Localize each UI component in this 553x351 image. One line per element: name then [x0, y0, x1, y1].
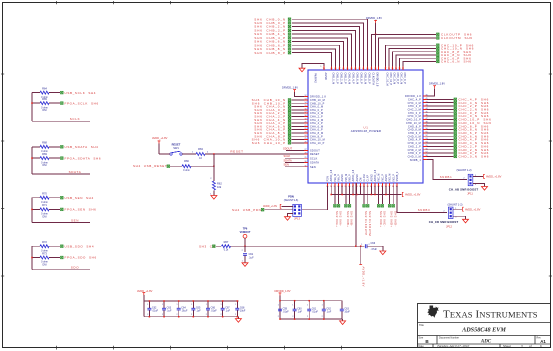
- svg-text:55: 55: [391, 68, 393, 70]
- svg-text:(SHUNT 1-2): (SHUNT 1-2): [447, 203, 462, 207]
- svg-text:SCLK: SCLK: [70, 117, 80, 121]
- svg-text:SH2 IND-: SH2 IND-: [393, 211, 397, 227]
- svg-text:.1uF: .1uF: [225, 310, 230, 313]
- svg-text:AGND: AGND: [385, 174, 388, 181]
- ground (R62): [211, 196, 217, 200]
- connector CHD_4_P: [454, 138, 489, 142]
- connector CHD_6_N: [454, 134, 489, 138]
- power AVDD_+1.8V (JP12): [453, 207, 481, 211]
- svg-text:INC_P: INC_P: [381, 174, 384, 182]
- svg-text:69: 69: [330, 68, 332, 70]
- svg-text:R65: R65: [42, 97, 47, 101]
- svg-text:52: 52: [402, 68, 404, 70]
- wire net SEN: [31, 198, 90, 223]
- wire CHC_8_N: [396, 55, 436, 70]
- svg-text:CHB_8_P: CHB_8_P: [368, 73, 371, 84]
- svg-text:DNI: DNI: [42, 164, 46, 167]
- svg-text:2: 2: [191, 314, 192, 316]
- connector CHA_6_P: [254, 128, 290, 132]
- connector USB_SDO: [61, 244, 95, 248]
- svg-text:INB_P: INB_P: [348, 174, 351, 182]
- svg-text:65: 65: [346, 68, 348, 70]
- svg-text:CHC_8_P: CHC_8_P: [396, 73, 399, 85]
- connector CHC_2_P: [454, 104, 489, 108]
- svg-text:2: 2: [292, 316, 293, 318]
- connector CHC_8_P: [437, 50, 472, 54]
- svg-text:50: 50: [426, 128, 428, 130]
- connector INC+: [377, 205, 382, 228]
- svg-text:48: 48: [426, 121, 428, 123]
- svg-text:Size: Size: [419, 336, 424, 339]
- svg-text:ADC: ADC: [480, 340, 492, 345]
- connector INC-: [381, 205, 386, 227]
- svg-text:ADS58C48 EVM: ADS58C48 EVM: [461, 327, 506, 334]
- date/sheet row: [419, 344, 543, 349]
- power DRVDD_1.8V flag (U1 left): [282, 85, 308, 96]
- capacitor C67: [220, 300, 230, 317]
- connector CHA_10_P: [252, 141, 291, 145]
- wire AVDD cap bank bus: [144, 301, 239, 317]
- connector USB_RESET: [133, 164, 170, 168]
- svg-text:R69: R69: [42, 152, 47, 156]
- svg-text:51: 51: [426, 132, 428, 134]
- svg-text:USB_SDO SH4: USB_SDO SH4: [65, 244, 95, 248]
- svg-text:SH2 INA-: SH2 INA-: [339, 211, 343, 227]
- resistor R64: [40, 86, 49, 98]
- node SDOUT: [283, 146, 308, 150]
- svg-text:SEN: SEN: [310, 166, 316, 169]
- svg-text:SDATA: SDATA: [310, 162, 319, 165]
- svg-text:0.1k: 0.1k: [224, 249, 229, 252]
- connector CM: [199, 244, 221, 248]
- resistor R69: [40, 152, 49, 167]
- svg-text:54: 54: [395, 68, 397, 70]
- connector IND-: [392, 205, 397, 227]
- node SCLK: [284, 154, 309, 158]
- svg-text:CHB_0_P: CHB_0_P: [336, 73, 339, 84]
- svg-text:JP11: JP11: [467, 191, 473, 195]
- svg-text:CHB_2_M: CHB_2_M: [340, 73, 343, 85]
- svg-text:SDATA: SDATA: [69, 170, 82, 174]
- connector USB_PDN: [232, 208, 293, 212]
- wire CHC_10_P: [386, 45, 436, 70]
- svg-text:AVDD_+1.8V: AVDD_+1.8V: [263, 205, 278, 208]
- svg-text:53: 53: [398, 68, 400, 70]
- connector FPGA_SDATA: [61, 156, 102, 160]
- svg-text:IND_M: IND_M: [389, 174, 392, 182]
- svg-text:Sheet: Sheet: [503, 344, 511, 348]
- svg-text:CHD_0_N SH6: CHD_0_N SH6: [459, 155, 490, 159]
- svg-text:SH2 INA+: SH2 INA+: [335, 211, 339, 227]
- svg-text:SH6 CHB_8_P: SH6 CHB_8_P: [254, 51, 286, 55]
- svg-text:CHC_8_M: CHC_8_M: [393, 73, 396, 85]
- svg-text:2: 2: [162, 314, 163, 316]
- svg-text:TEXAS INSTRUMENTS: TEXAS INSTRUMENTS: [443, 309, 538, 321]
- capacitor C64: [177, 300, 188, 317]
- svg-text:.1uF: .1uF: [249, 256, 254, 259]
- svg-text:SH2 CLKOUTM: SH2 CLKOUTM: [368, 211, 372, 236]
- power AVDD_+1.8V (JP13): [263, 204, 293, 208]
- svg-text:61: 61: [362, 68, 364, 70]
- power AVDD_+1.8V flag (cap bank): [137, 289, 153, 301]
- svg-text:AVDD_+1.8V: AVDD_+1.8V: [361, 267, 365, 287]
- svg-text:49: 49: [426, 125, 428, 127]
- connector CHC_8_N: [437, 53, 472, 57]
- capacitor C61 (DRVDD): [307, 300, 318, 320]
- title text ADS58C48 EVM: [419, 323, 506, 333]
- svg-text:AGND: AGND: [356, 174, 359, 181]
- svg-text:R73: R73: [42, 251, 47, 255]
- wire CLKOUTP/CLKOUTM pair: [364, 195, 368, 205]
- svg-text:.01uF: .01uF: [283, 311, 290, 314]
- connector CLKOUTP: [437, 32, 473, 36]
- wire PDN to JP13: [302, 183, 328, 210]
- svg-text:SNRB_0: SNRB_0: [396, 171, 399, 181]
- svg-text:.47uF: .47uF: [371, 248, 378, 251]
- connector CHB_0_P: [254, 21, 290, 25]
- svg-text:SH2 INB-: SH2 INB-: [350, 211, 354, 227]
- connector CHD_4_N: [454, 141, 489, 145]
- svg-text:PDN: PDN: [327, 176, 330, 181]
- svg-text:2: 2: [307, 316, 308, 318]
- svg-text:.1uF: .1uF: [167, 310, 172, 313]
- connector CHB_2_P: [254, 28, 290, 32]
- svg-text:CHB_8_M: CHB_8_M: [364, 73, 367, 85]
- svg-text:R67: R67: [224, 240, 229, 244]
- wire net SDO: [31, 246, 90, 270]
- capacitor C66: [365, 242, 382, 251]
- capacitor C61: [242, 253, 254, 263]
- svg-text:CHB_2_P: CHB_2_P: [344, 73, 347, 84]
- resistor R63: [196, 147, 209, 160]
- svg-text:56: 56: [388, 68, 390, 70]
- svg-text:44: 44: [426, 108, 428, 110]
- svg-text:58: 58: [426, 155, 428, 157]
- svg-text:43: 43: [426, 105, 428, 107]
- wire RESET net to U1: [205, 149, 308, 154]
- capacitor C65: [191, 300, 201, 317]
- svg-text:C66: C66: [371, 242, 376, 245]
- connector USB_SDATA: [61, 145, 99, 149]
- connector CHA_2_P: [254, 115, 290, 119]
- node SEN: [284, 163, 309, 167]
- resistor R67: [222, 240, 246, 252]
- svg-text:.01uF: .01uF: [181, 310, 188, 313]
- connector CHA_10_N: [252, 138, 291, 142]
- svg-text:3: 3: [521, 344, 523, 348]
- svg-text:INC_M: INC_M: [378, 174, 381, 182]
- svg-text:CHC_6_N SH6: CHC_6_N SH6: [441, 60, 472, 64]
- capacitor C63 10uF: [340, 301, 351, 319]
- svg-text:1: 1: [177, 304, 178, 306]
- resistor R62: [210, 154, 222, 196]
- svg-text:AGND: AGND: [341, 174, 344, 181]
- power AVDD_+1.8V (vertical): [359, 246, 365, 287]
- U1 right pin names: [405, 94, 427, 161]
- U1 left pin names: [305, 95, 327, 169]
- connector CHD_2_P: [454, 144, 489, 148]
- power AVDD_+1.8V (bottom bus): [402, 193, 420, 197]
- connector CHD_10_N: [454, 121, 492, 125]
- svg-text:AVDD_1.8: AVDD_1.8: [330, 169, 333, 181]
- svg-text:ADS58C48_POWER: ADS58C48_POWER: [351, 129, 382, 133]
- connector CLKOUTP: [363, 205, 368, 236]
- svg-text:SH2 CLKOUTP: SH2 CLKOUTP: [364, 211, 368, 236]
- svg-text:6: 6: [540, 344, 542, 348]
- svg-text:DRVDD_1.8V: DRVDD_1.8V: [282, 85, 298, 89]
- svg-text:DRVDD_1.8V: DRVDD_1.8V: [275, 289, 291, 293]
- svg-text:70: 70: [323, 68, 325, 70]
- svg-text:DNI: DNI: [42, 215, 46, 218]
- svg-text:SEN: SEN: [284, 163, 289, 167]
- connector CHB_6_N: [254, 40, 291, 44]
- svg-text:INB_M: INB_M: [345, 174, 348, 182]
- connector CHD_2_N: [454, 148, 489, 152]
- connector CHB_2_N: [254, 25, 291, 29]
- wire CHC_6_P: [400, 58, 436, 70]
- svg-text:42: 42: [426, 101, 428, 103]
- svg-text:SEN: SEN: [71, 218, 79, 222]
- svg-text:R70: R70: [42, 192, 47, 196]
- svg-text:SDO: SDO: [71, 266, 79, 270]
- title block: [418, 304, 551, 348]
- node SEN: [71, 218, 79, 222]
- connector CHA_4_N: [254, 118, 291, 122]
- svg-text:DRVDD_1.8V: DRVDD_1.8V: [366, 16, 382, 20]
- connector INA+: [334, 205, 339, 228]
- svg-text:CH_AB SNR BOOST: CH_AB SNR BOOST: [449, 188, 479, 192]
- connector CHB_10_P: [252, 101, 291, 105]
- svg-text:54: 54: [426, 142, 428, 144]
- connector CHA_6_N: [254, 124, 291, 128]
- svg-text:SNRB1: SNRB1: [440, 175, 453, 179]
- svg-text:VCMOUT: VCMOUT: [240, 231, 251, 234]
- svg-text:CH_CD SNR BOOST: CH_CD SNR BOOST: [429, 220, 459, 224]
- svg-text:1: 1: [278, 305, 279, 307]
- ground (JP12): [453, 216, 469, 223]
- svg-text:SNRB_1: SNRB_1: [410, 159, 422, 162]
- svg-text:.1uF: .1uF: [196, 310, 201, 313]
- connector INB+: [345, 205, 350, 228]
- svg-text:52: 52: [426, 135, 428, 137]
- svg-text:.1uF: .1uF: [326, 311, 331, 314]
- svg-text:INA_P: INA_P: [338, 174, 341, 182]
- ground (DRVDD cap bank): [340, 319, 346, 324]
- svg-text:58: 58: [374, 68, 376, 70]
- connector CHB_0_N: [254, 17, 291, 21]
- svg-text:CHB_4_P: CHB_4_P: [352, 73, 355, 84]
- svg-text:R68: R68: [42, 141, 47, 145]
- ground (U1 pin 1 AGND): [299, 64, 324, 72]
- svg-text:USB_SEN SH4: USB_SEN SH4: [65, 196, 94, 200]
- wire CM to C66: [355, 183, 364, 247]
- ground (C61): [242, 263, 248, 267]
- svg-text:SH2 INC+: SH2 INC+: [379, 211, 383, 228]
- jumper JP13 PDN: [284, 195, 302, 221]
- power AVDD_+1.8V (JP11): [473, 174, 502, 178]
- svg-text:USB_SCLK SH4: USB_SCLK SH4: [65, 91, 97, 95]
- svg-text:47: 47: [426, 118, 428, 120]
- svg-text:.1uF: .1uF: [297, 311, 302, 314]
- capacitor C68: [235, 300, 246, 317]
- connector CHC_6_N: [437, 60, 472, 64]
- connector FPGA_SEN: [61, 208, 97, 212]
- connector CHC_0_P: [454, 111, 489, 115]
- capacitor C66: [206, 300, 217, 317]
- jumper JP12: [429, 203, 463, 229]
- svg-text:CLKP: CLKP: [367, 175, 370, 182]
- U1 bottom pin names: [326, 169, 399, 188]
- svg-text:55: 55: [426, 145, 428, 147]
- svg-text:68: 68: [334, 68, 336, 70]
- svg-text:JP13: JP13: [294, 216, 300, 220]
- svg-text:1: 1: [292, 305, 293, 307]
- connector CHD_8_P: [454, 124, 489, 128]
- wire SNRB_1 to JP11: [423, 160, 467, 180]
- svg-text:SH4 USB_PDN: SH4 USB_PDN: [232, 208, 261, 212]
- svg-text:2: 2: [322, 316, 323, 318]
- svg-text:IND_P: IND_P: [392, 174, 395, 182]
- connector INB-: [348, 205, 353, 227]
- svg-text:1: 1: [235, 304, 236, 306]
- svg-text:USB_SDATA SH4: USB_SDATA SH4: [65, 145, 99, 149]
- connector CHD_8_N: [454, 128, 489, 132]
- svg-text:SNRB0: SNRB0: [418, 208, 431, 212]
- svg-text:CHA_10_P: CHA_10_P: [310, 142, 325, 145]
- svg-text:AVDD_+1.8V: AVDD_+1.8V: [465, 207, 481, 211]
- resistor R71: [40, 203, 49, 218]
- svg-text:1: 1: [307, 305, 308, 307]
- svg-text:AGND: AGND: [324, 73, 327, 80]
- svg-text:SH2 INB+: SH2 INB+: [346, 211, 350, 227]
- connector USB_SEN: [61, 196, 94, 200]
- capacitor C62: [147, 300, 158, 317]
- svg-text:DRVDD_1.8V: DRVDD_1.8V: [429, 82, 445, 86]
- svg-text:1: 1: [162, 304, 163, 306]
- node SDO: [71, 266, 79, 270]
- svg-text:SH6 CHA_10_P: SH6 CHA_10_P: [252, 141, 286, 145]
- connector CHA_0_N: [254, 105, 291, 109]
- wire U1 left channel inputs: [292, 100, 309, 143]
- svg-text:57: 57: [426, 152, 428, 154]
- svg-text:CLKOUTM: CLKOUTM: [372, 73, 375, 85]
- svg-text:AVDD_1.8: AVDD_1.8: [374, 169, 377, 181]
- svg-text:.01uF: .01uF: [312, 311, 319, 314]
- svg-text:0 ohm: 0 ohm: [183, 169, 190, 172]
- connector CHB_8_P: [254, 51, 290, 55]
- connector CHC_2_N: [454, 107, 489, 111]
- svg-text:FPGA_SDO SH6: FPGA_SDO SH6: [65, 256, 97, 260]
- connector CHB_10_N: [252, 98, 291, 102]
- connector CHA_8_P: [254, 134, 290, 138]
- power AVDD_+1.8V flag (reset): [152, 136, 168, 154]
- svg-text:57: 57: [384, 68, 386, 70]
- svg-text:CHB_0_M: CHB_0_M: [332, 73, 335, 85]
- connector USB_SCLK: [61, 91, 97, 95]
- svg-text:AVDD_+1.8V: AVDD_+1.8V: [486, 175, 502, 179]
- svg-text:CHC_6_M: CHC_6_M: [400, 73, 403, 85]
- svg-text:CHC_6_P: CHC_6_P: [403, 73, 406, 85]
- connector CHD_6_P: [454, 131, 489, 135]
- power DRVDD_1.8V flag (U1 right): [423, 82, 445, 96]
- U1 top pin names: [323, 68, 406, 87]
- connector FPGA_SCLK: [61, 101, 99, 105]
- svg-text:DNI: DNI: [42, 264, 46, 267]
- node SDATA: [69, 170, 82, 174]
- svg-text:2: 2: [235, 314, 236, 316]
- svg-text:10k: 10k: [217, 185, 222, 189]
- wire DRVDD cap bank bus: [280, 301, 343, 319]
- svg-text:(SHUNT1-6): (SHUNT1-6): [284, 198, 299, 202]
- svg-text:10uF: 10uF: [344, 311, 350, 314]
- ground (AVDD cap bank): [235, 317, 241, 323]
- wire CM node: [242, 245, 356, 252]
- svg-text:R66: R66: [184, 159, 189, 163]
- size/document/rev row: [419, 336, 547, 344]
- op-amp U1 ADS58C48_POWER body: [308, 70, 423, 183]
- wire net SCLK: [31, 93, 90, 122]
- svg-text:RESET: RESET: [230, 149, 243, 153]
- svg-text:CHC_10_M: CHC_10_M: [386, 73, 389, 86]
- svg-text:CHC_10_P: CHC_10_P: [389, 73, 392, 86]
- connector CHC_10_P: [437, 43, 475, 47]
- connector CHA_8_N: [254, 131, 291, 135]
- connector CHA_2_N: [254, 111, 291, 115]
- connector CHB_4_N: [254, 32, 291, 36]
- svg-text:1: 1: [322, 305, 323, 307]
- svg-text:FPGA_SDATA SH6: FPGA_SDATA SH6: [65, 156, 102, 160]
- capacitor C59 (DRVDD): [278, 300, 289, 320]
- connector CHC_0_N: [454, 114, 489, 118]
- svg-text:CHB_6_P: CHB_6_P: [360, 73, 363, 84]
- svg-text:AVDD_+1.8V: AVDD_+1.8V: [405, 193, 421, 197]
- capacitor C63: [162, 300, 172, 317]
- connector INA-: [337, 205, 342, 227]
- svg-text:10uF: 10uF: [240, 310, 246, 313]
- svg-text:60: 60: [366, 68, 368, 70]
- svg-text:1: 1: [147, 304, 148, 306]
- svg-text:SH4 USB_RESET: SH4 USB_RESET: [133, 164, 167, 168]
- svg-text:SW1: SW1: [173, 146, 179, 150]
- resistor R65: [40, 97, 49, 112]
- svg-text:67: 67: [338, 68, 340, 70]
- svg-text:CLKM: CLKM: [363, 175, 366, 182]
- svg-text:SCLK: SCLK: [310, 157, 318, 160]
- svg-text:AVDD_+1.8V: AVDD_+1.8V: [152, 136, 168, 140]
- svg-text:SDOUT: SDOUT: [283, 146, 292, 150]
- svg-text:45: 45: [426, 111, 428, 113]
- wire net SDATA: [31, 147, 90, 174]
- svg-text:2: 2: [177, 314, 178, 316]
- wire INC+/INC- pair: [379, 195, 383, 205]
- svg-text:FPGA_SEN SH6: FPGA_SEN SH6: [65, 208, 97, 212]
- power DRVDD_1.8V flag (top): [366, 16, 382, 70]
- svg-text:1: 1: [220, 304, 221, 306]
- resistor R72: [40, 240, 49, 252]
- switch SW1 RESET: [170, 143, 182, 156]
- svg-text:R64: R64: [42, 86, 47, 90]
- node SCLK: [70, 117, 80, 121]
- connector CLKOUTM: [366, 205, 371, 237]
- svg-text:1: 1: [191, 304, 192, 306]
- svg-text:59: 59: [370, 68, 372, 70]
- node SDATA: [284, 158, 309, 162]
- Texas Instruments logo: [427, 306, 537, 321]
- svg-text:SCLK: SCLK: [284, 154, 291, 158]
- svg-text:SH2 IND+: SH2 IND+: [390, 211, 394, 228]
- capacitor C60 (DRVDD): [292, 300, 302, 320]
- connector CHC_4_P: [454, 97, 489, 101]
